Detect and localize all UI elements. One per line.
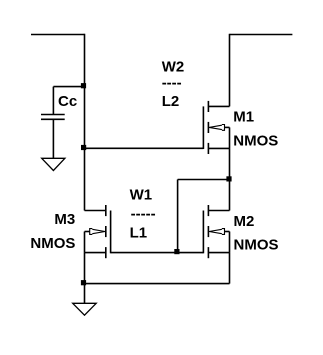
svg-text:NMOS: NMOS	[234, 237, 279, 254]
wire M3 source down	[84, 253, 86, 284]
node junction dot M1 gate / M3 drain	[81, 145, 86, 150]
svg-text:M3: M3	[54, 211, 75, 228]
wire gate column vertical	[177, 180, 179, 253]
wire M3 gate to M2 gate	[111, 252, 204, 254]
svg-text:Cc: Cc	[58, 93, 77, 110]
wire M1 gate	[85, 147, 204, 149]
wire M2 source down	[229, 253, 231, 284]
svg-text:L2: L2	[162, 93, 180, 110]
ground symbol bottom	[73, 303, 97, 315]
node junction dot on gate wire	[174, 249, 179, 254]
wire ground stem	[84, 284, 86, 304]
transistor M1 NMOS	[203, 101, 229, 154]
svg-text:W2: W2	[162, 58, 185, 75]
node junction dot at ground rail	[81, 280, 86, 285]
svg-text:NMOS: NMOS	[233, 133, 278, 150]
wire top-right supply rail	[230, 34, 293, 36]
svg-text:-----: -----	[131, 205, 156, 222]
svg-text:NMOS: NMOS	[30, 235, 75, 252]
wire top-left supply rail	[31, 34, 85, 36]
svg-text:----: ----	[162, 74, 182, 91]
svg-text:W1: W1	[130, 186, 153, 203]
ground under Cc	[42, 158, 65, 170]
wire M1 drain to top-right rail	[229, 34, 231, 107]
wire Cc tap branch	[53, 86, 84, 88]
wire M1 source down to M2 drain	[229, 148, 231, 210]
transistor M3 NMOS (mirrored)	[85, 205, 111, 258]
wire bottom ground rail	[85, 283, 230, 285]
capacitor C1 (Cc)	[41, 87, 65, 159]
wire node to gate column	[178, 179, 230, 181]
node junction dot between M1 source and M2 drain	[226, 176, 231, 181]
wire left column (rail corner down through Cc tap and M1-gate node to M3 drain)	[84, 34, 86, 211]
svg-text:M2: M2	[234, 213, 255, 230]
node junction dot at Cc tap	[81, 83, 86, 88]
svg-text:M1: M1	[233, 108, 254, 125]
transistor M2 NMOS	[203, 205, 229, 258]
svg-text:L1: L1	[130, 224, 148, 241]
